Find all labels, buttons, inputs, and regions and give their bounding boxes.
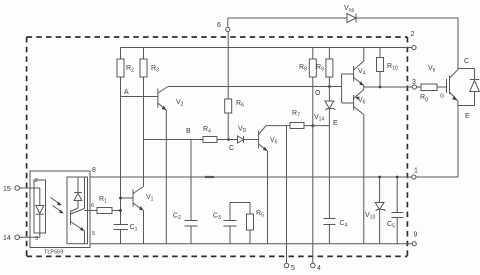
svg-text:14: 14 — [3, 235, 11, 242]
svg-text:9: 9 — [414, 232, 418, 239]
capacitor C2 — [185, 220, 198, 222]
terminal 2 — [412, 45, 416, 49]
wire R6 to node C — [227, 113, 229, 140]
svg-text:6: 6 — [217, 22, 221, 29]
wire R1 to node — [112, 210, 121, 212]
optocoupler U1 package box — [30, 171, 90, 248]
svg-text:3: 3 — [35, 236, 38, 242]
svg-text:5: 5 — [291, 265, 295, 272]
junction R10 output — [379, 86, 382, 89]
wire top sense line — [228, 17, 347, 19]
wire top supply rail — [121, 47, 412, 49]
wire V6 collector to bottom rail — [363, 115, 365, 244]
junction V10 on mid rail — [378, 176, 381, 179]
transistor V4 — [342, 73, 354, 75]
terminal 14 — [15, 235, 20, 240]
svg-text:5: 5 — [92, 231, 95, 237]
transistor V2 — [157, 89, 159, 108]
zener V14 — [328, 87, 330, 102]
junction R1 node — [119, 209, 122, 212]
svg-text:2: 2 — [411, 31, 415, 38]
wire R3 column down — [143, 77, 145, 187]
capacitor C4 — [323, 218, 335, 220]
freewheel diode — [470, 79, 480, 81]
wire R8 column to terminal 4 — [312, 77, 314, 263]
wire bottom rail — [90, 243, 412, 245]
wire V14 column to C4 — [328, 109, 330, 219]
resistor R1 — [97, 208, 112, 214]
svg-text:1: 1 — [414, 168, 418, 175]
wire collector to freewheel diode — [458, 68, 475, 70]
wire pin 6 to R1 — [85, 210, 98, 212]
resistor R3 — [143, 48, 145, 60]
resistor Rg — [421, 84, 437, 91]
node A wire — [121, 96, 158, 98]
junction V1 base — [119, 197, 122, 200]
svg-text:G: G — [440, 94, 444, 100]
terminal 6 — [226, 27, 230, 31]
wire node E — [304, 125, 329, 127]
transistor V1 — [121, 197, 134, 199]
wire C5 to bottom rail — [396, 218, 398, 244]
wire V5 emitter down — [267, 151, 269, 244]
wire freewheel diode to emitter — [474, 92, 476, 106]
wire V2 emitter down — [165, 110, 167, 244]
wire opto emitter to pin 5 — [84, 231, 86, 244]
svg-text:4: 4 — [317, 265, 321, 272]
diode VD — [229, 139, 238, 141]
wire V5 collector line — [266, 125, 290, 127]
wire R10 to output — [379, 72, 381, 88]
junction C5 on mid rail — [396, 176, 399, 179]
wire V2 collector to node O — [168, 86, 329, 88]
svg-text:3: 3 — [412, 79, 416, 86]
LED diode — [39, 188, 41, 206]
resistor R4 — [203, 137, 217, 143]
wire opto collector to pin 8 — [84, 177, 86, 209]
wire node O to bases — [329, 86, 341, 88]
svg-text:8: 8 — [92, 167, 96, 174]
svg-text:TLP559: TLP559 — [44, 250, 63, 256]
svg-text:C: C — [229, 145, 234, 152]
zener V10 — [379, 177, 381, 203]
svg-text:B: B — [186, 128, 191, 135]
capacitor C1 — [114, 224, 129, 226]
wire emitter junction — [363, 86, 365, 90]
wire V10 to bottom rail — [379, 210, 381, 244]
wire VD to V5 base — [244, 139, 259, 141]
transistor V6 — [342, 102, 354, 104]
wire C4 to bottom rail — [328, 225, 330, 244]
LED chip box — [34, 180, 46, 233]
light arrow 2 — [53, 206, 63, 213]
wire to IGBT collector — [457, 18, 459, 70]
svg-text:C: C — [464, 58, 469, 65]
wire terminal 15 to pin 2 — [20, 187, 40, 189]
wire terminal 6 to top — [227, 18, 229, 27]
wire R5 to bottom rail — [249, 230, 251, 244]
terminal 15 — [15, 186, 20, 191]
capacitor C5 — [396, 177, 398, 213]
resistor R6 — [227, 32, 229, 99]
resistor R10 — [379, 48, 381, 58]
svg-text:E: E — [333, 120, 338, 127]
junction on mid rail — [205, 176, 214, 178]
wire terminal 3 to Rg — [417, 86, 421, 88]
wire Rg to gate — [437, 86, 447, 88]
wire R4 to node C — [217, 139, 229, 141]
svg-text:E: E — [465, 113, 470, 120]
photodiode — [77, 177, 79, 193]
wire terminal 14 to pin 3 — [20, 236, 40, 238]
terminal 3 — [412, 85, 416, 89]
diode Vnp — [347, 14, 356, 23]
wire R9 to node O — [328, 77, 330, 87]
dashed driver module border — [27, 37, 408, 256]
svg-text:A: A — [124, 89, 129, 96]
resistor R7 — [290, 123, 304, 129]
svg-text:6: 6 — [91, 203, 94, 209]
svg-text:O: O — [315, 90, 321, 97]
node B wire — [144, 139, 204, 141]
node O junction — [328, 85, 331, 88]
terminal 5 — [284, 263, 289, 268]
wire node B to C2 — [190, 140, 192, 221]
detector chip box — [67, 177, 88, 244]
wire C3 to bottom rail — [229, 226, 231, 244]
wire C3 to R5 — [230, 202, 250, 204]
capacitor C3 — [229, 203, 231, 221]
svg-text:2: 2 — [35, 178, 38, 184]
wire to terminal 5 — [286, 126, 288, 264]
wire R2 column down — [120, 77, 122, 225]
wire mid emitter rail — [90, 176, 412, 178]
transistor V5 — [258, 131, 260, 149]
junction R7 output — [311, 124, 314, 127]
wire mid rail to IGBT emitter — [416, 176, 458, 178]
wire V1 emitter to bottom rail — [143, 211, 145, 244]
terminal 4 — [311, 263, 316, 268]
resistor R8 — [312, 48, 314, 60]
terminal 1 — [412, 175, 416, 179]
terminal 9 — [412, 242, 416, 246]
wire output to terminal 3 — [364, 86, 413, 88]
IGBT Vtr — [446, 79, 448, 93]
resistor R5 — [249, 203, 251, 215]
opto transistor — [71, 208, 79, 212]
node C junction — [227, 138, 230, 141]
wire V4 collector to rail — [363, 48, 365, 62]
light arrow 1 — [51, 198, 61, 205]
svg-text:15: 15 — [3, 186, 11, 193]
resistor R9 — [328, 48, 330, 60]
wire C2 to bottom rail — [190, 226, 192, 244]
resistor R2 — [120, 48, 122, 60]
